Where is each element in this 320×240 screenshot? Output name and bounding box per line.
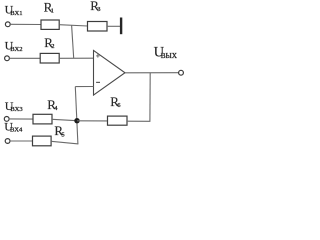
wire R2 to op-amp noninverting input (59, 57, 93, 59)
resistor R3 (88, 0, 108, 31)
wire R6 to output branch (127, 120, 150, 122)
svg-text:ВХ1: ВХ1 (10, 10, 22, 17)
svg-text:ВХ2: ВХ2 (10, 46, 22, 53)
resistor R1 (41, 0, 59, 29)
svg-text:3: 3 (97, 6, 100, 13)
chassis ground bar (120, 18, 122, 35)
wire to op-amp inverting input (75, 86, 93, 88)
svg-text:1: 1 (51, 8, 54, 15)
wire op-amp output to terminal (125, 72, 179, 74)
wire node A to R6 (77, 120, 108, 122)
wire R4 to node A (52, 119, 77, 120)
node UВХ2 label (5, 39, 23, 53)
input terminal UВХ1 (5, 22, 10, 27)
svg-text:5: 5 (61, 131, 64, 138)
wire UВХ2 to R2 (9, 57, 40, 59)
op-amp U1 (94, 50, 126, 95)
node UВХ3 label (5, 99, 24, 113)
wire UВХ1 to R1 (10, 23, 41, 25)
node UВЫХ label (154, 44, 178, 60)
resistor R6 (108, 94, 128, 125)
wire UВХ4 to R5 (10, 140, 33, 142)
wire R5 to inverting vertical (51, 141, 78, 144)
wire junction vertical to noninverting input row (72, 25, 74, 58)
node UВХ4 label (4, 120, 23, 134)
svg-text:2: 2 (51, 43, 54, 50)
svg-text:ВЫХ: ВЫХ (161, 52, 178, 60)
node UВХ1 label (5, 3, 23, 17)
input terminal UВХ2 (5, 56, 10, 61)
wire inverting input vertical (75, 87, 78, 144)
resistor R4 (33, 97, 58, 124)
wire output branch down to R6 (149, 73, 151, 122)
svg-text:ВХ3: ВХ3 (10, 106, 23, 113)
node A junction dot (74, 118, 79, 123)
wire R3 to chassis bar (107, 25, 120, 27)
resistor R5 (33, 123, 65, 146)
input terminal UВХ4 (5, 139, 10, 144)
resistor R2 (40, 35, 59, 63)
wire R1 to R3 (59, 25, 87, 26)
input terminal UВХ3 (4, 117, 9, 122)
wire UВХ3 to R4 (9, 118, 33, 120)
output terminal UВЫХ (179, 70, 184, 75)
svg-text:ВХ4: ВХ4 (10, 127, 23, 134)
